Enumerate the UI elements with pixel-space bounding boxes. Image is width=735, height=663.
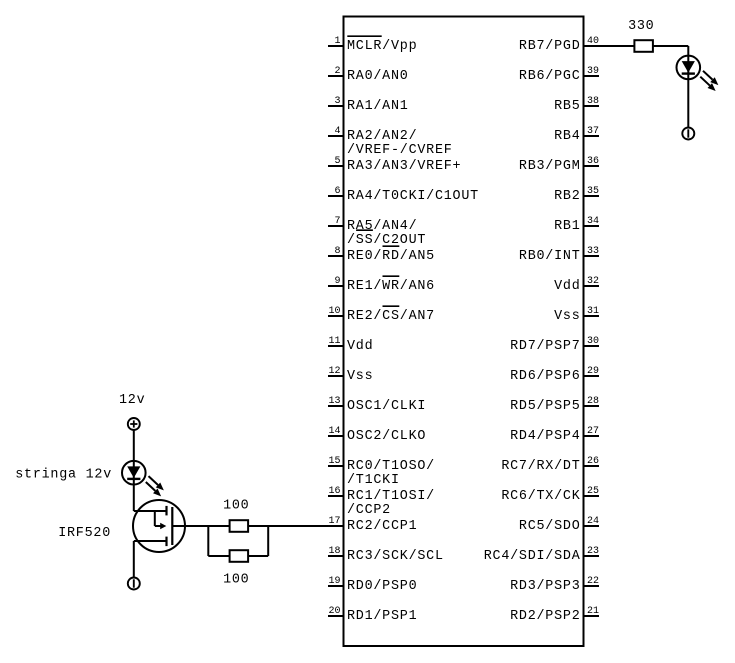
svg-text:34: 34 [587,216,599,227]
svg-text:RC4/SDI/SDA: RC4/SDI/SDA [484,549,581,564]
svg-text:9: 9 [334,276,340,287]
svg-text:27: 27 [587,426,599,437]
svg-text:RB5: RB5 [554,99,580,114]
svg-text:RC6/TX/CK: RC6/TX/CK [501,489,580,504]
svg-text:32: 32 [587,276,599,287]
svg-text:RD4/PSP4: RD4/PSP4 [510,429,580,444]
svg-text:RB2: RB2 [554,189,580,204]
svg-text:RB7/PGD: RB7/PGD [519,39,581,54]
svg-text:33: 33 [587,246,599,257]
svg-text:10: 10 [328,306,340,317]
svg-text:RC0/T1OSO/: RC0/T1OSO/ [347,459,435,474]
svg-text:40: 40 [587,36,599,47]
svg-text:RD2/PSP2: RD2/PSP2 [510,609,580,624]
svg-text:12: 12 [328,366,340,377]
svg-text:RC7/RX/DT: RC7/RX/DT [501,459,580,474]
svg-text:/CCP2: /CCP2 [347,503,391,518]
svg-text:20: 20 [328,606,340,617]
svg-text:RD5/PSP5: RD5/PSP5 [510,399,580,414]
svg-text:12v: 12v [119,393,145,408]
svg-text:RB6/PGC: RB6/PGC [519,69,581,84]
svg-text:RA1/AN1: RA1/AN1 [347,99,409,114]
svg-text:15: 15 [328,456,340,467]
svg-text:/T1CKI: /T1CKI [347,473,400,488]
svg-text:25: 25 [587,486,599,497]
svg-text:35: 35 [587,186,599,197]
svg-text:29: 29 [587,366,599,377]
svg-text:RA2/AN2/: RA2/AN2/ [347,129,417,144]
svg-text:RC2/CCP1: RC2/CCP1 [347,519,417,534]
svg-text:5: 5 [334,156,340,167]
svg-text:Vdd: Vdd [347,339,373,354]
svg-text:330: 330 [628,19,654,34]
svg-text:28: 28 [587,396,599,407]
svg-text:18: 18 [328,546,340,557]
svg-text:RA3/AN3/VREF+: RA3/AN3/VREF+ [347,159,461,174]
svg-text:26: 26 [587,456,599,467]
svg-text:RD7/PSP7: RD7/PSP7 [510,339,580,354]
svg-text:22: 22 [587,576,599,587]
svg-text:24: 24 [587,516,599,527]
svg-text:MCLR/Vpp: MCLR/Vpp [347,39,417,54]
svg-text:RE2/CS/AN7: RE2/CS/AN7 [347,309,435,324]
svg-text:RA4/T0CKI/C1OUT: RA4/T0CKI/C1OUT [347,189,479,204]
svg-text:RA0/AN0: RA0/AN0 [347,69,409,84]
svg-text:Vss: Vss [554,309,580,324]
svg-text:100: 100 [223,573,249,588]
svg-text:4: 4 [334,126,340,137]
svg-text:3: 3 [334,96,340,107]
svg-text:stringa 12v: stringa 12v [15,467,112,482]
svg-text:38: 38 [587,96,599,107]
svg-text:14: 14 [328,426,340,437]
svg-text:RA5/AN4/: RA5/AN4/ [347,219,417,234]
svg-text:Vss: Vss [347,369,373,384]
svg-text:RE1/WR/AN6: RE1/WR/AN6 [347,279,435,294]
svg-text:23: 23 [587,546,599,557]
svg-text:31: 31 [587,306,599,317]
svg-text:RB1: RB1 [554,219,580,234]
svg-text:RD1/PSP1: RD1/PSP1 [347,609,417,624]
svg-text:11: 11 [328,336,340,347]
svg-text:RD0/PSP0: RD0/PSP0 [347,579,417,594]
svg-text:100: 100 [223,499,249,514]
svg-text:30: 30 [587,336,599,347]
svg-text:1: 1 [334,36,340,47]
svg-text:RB3/PGM: RB3/PGM [519,159,581,174]
svg-text:RD3/PSP3: RD3/PSP3 [510,579,580,594]
svg-text:IRF520: IRF520 [58,526,111,541]
svg-text:Vdd: Vdd [554,279,580,294]
svg-text:6: 6 [334,186,340,197]
svg-text:RC3/SCK/SCL: RC3/SCK/SCL [347,549,444,564]
svg-text:RB4: RB4 [554,129,580,144]
svg-text:16: 16 [328,486,340,497]
svg-text:13: 13 [328,396,340,407]
svg-text:OSC2/CLKO: OSC2/CLKO [347,429,426,444]
svg-text:21: 21 [587,606,599,617]
svg-text:2: 2 [334,66,340,77]
svg-text:RD6/PSP6: RD6/PSP6 [510,369,580,384]
svg-text:RC5/SDO: RC5/SDO [519,519,581,534]
svg-text:OSC1/CLKI: OSC1/CLKI [347,399,426,414]
svg-text:/VREF-/CVREF: /VREF-/CVREF [347,143,453,158]
svg-text:19: 19 [328,576,340,587]
svg-text:7: 7 [334,216,340,227]
svg-text:39: 39 [587,66,599,77]
svg-text:RE0/RD/AN5: RE0/RD/AN5 [347,249,435,264]
svg-text:36: 36 [587,156,599,167]
svg-text:37: 37 [587,126,599,137]
svg-text:RB0/INT: RB0/INT [519,249,581,264]
svg-text:RC1/T1OSI/: RC1/T1OSI/ [347,489,435,504]
svg-text:8: 8 [334,246,340,257]
